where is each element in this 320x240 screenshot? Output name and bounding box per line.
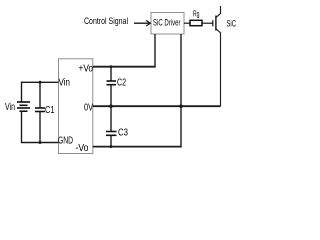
svg-text:Control Signal: Control Signal	[84, 16, 128, 27]
junction dot driver pin / 0V	[179, 104, 183, 108]
battery Vin	[17, 102, 30, 111]
svg-text:GND: GND	[58, 135, 73, 146]
resistor Rg	[190, 20, 202, 25]
wire: driver +V pin	[154, 34, 156, 67]
junction dot C1 top	[39, 81, 42, 84]
transistor Q1 gate bar	[212, 20, 214, 26]
capacitor C1	[35, 82, 45, 142]
arrowhead	[146, 20, 150, 26]
svg-text:SiC Driver: SiC Driver	[153, 18, 181, 29]
transistor Q1 body bar	[215, 16, 217, 31]
capacitor C2	[107, 67, 117, 107]
svg-text:+Vo: +Vo	[79, 63, 94, 74]
transistor Q1 source lead	[216, 29, 220, 106]
capacitor C3	[106, 106, 117, 146]
wire: Vin loop left lower	[21, 111, 23, 143]
svg-text:Vin: Vin	[59, 77, 71, 88]
svg-text:Rg: Rg	[193, 9, 200, 19]
wire: Vin loop left upper	[21, 82, 23, 102]
transistor Q1 drain lead	[216, 6, 220, 17]
wire: Rg to gate	[202, 22, 213, 24]
SiC Driver box U1	[151, 13, 184, 35]
wire: +Vo rail	[93, 66, 156, 68]
svg-text:0V: 0V	[84, 102, 93, 113]
DC-DC converter box U2	[59, 59, 93, 154]
wire: Vin loop bottom	[22, 142, 59, 144]
wire: driver -V pin	[180, 34, 182, 147]
svg-text:SiC: SiC	[227, 18, 237, 29]
wire: -Vo rail	[93, 146, 182, 148]
junction dot C1 bottom	[39, 141, 42, 144]
junction dot C2 top	[110, 65, 113, 68]
wire: Vin loop top	[22, 81, 59, 83]
wire: driver output to Rg	[184, 22, 190, 24]
svg-text:-Vo: -Vo	[76, 143, 89, 154]
svg-text:C3: C3	[118, 128, 128, 139]
wire: control signal arrow	[134, 22, 150, 24]
wire: 0V rail	[93, 105, 221, 107]
junction dot C3 bottom	[110, 145, 113, 148]
svg-text:C2: C2	[117, 78, 126, 89]
junction dot 0V/C2/C3	[109, 104, 113, 108]
svg-text:Vin: Vin	[5, 102, 15, 113]
svg-text:C1: C1	[45, 105, 55, 116]
